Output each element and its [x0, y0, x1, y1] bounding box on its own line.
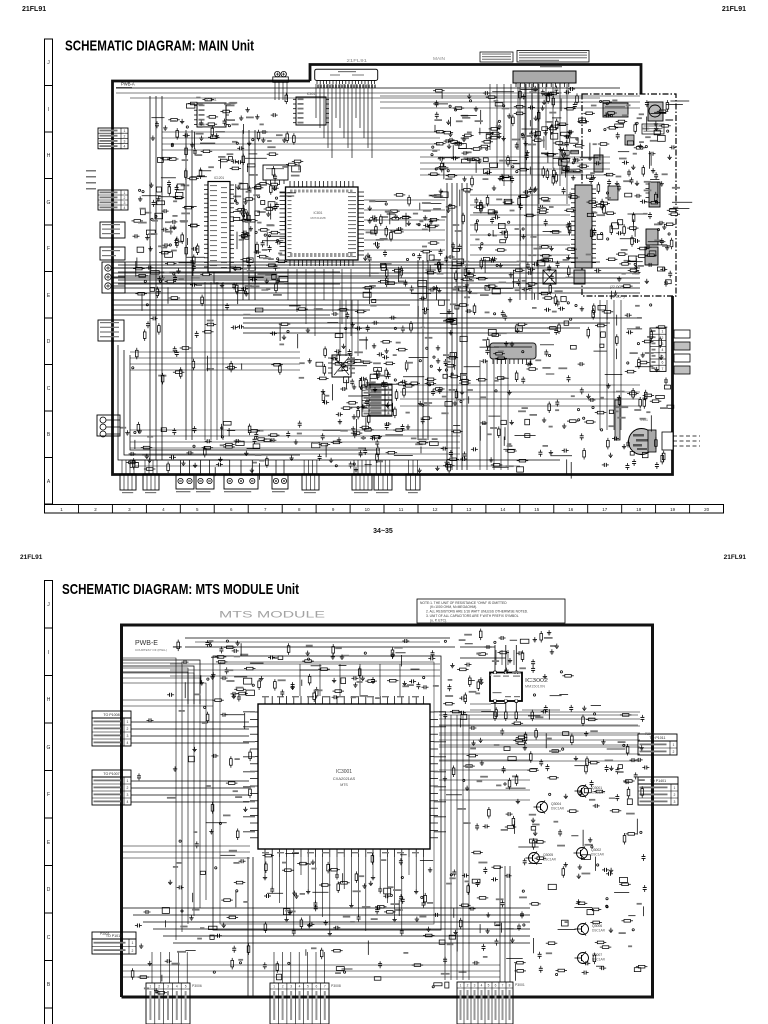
svg-text:D: D [47, 339, 51, 345]
svg-text:P3006: P3006 [192, 984, 202, 988]
svg-text:P3012: P3012 [645, 732, 654, 736]
svg-text:1: 1 [388, 386, 390, 390]
svg-text:3: 3 [290, 985, 292, 989]
svg-text:MAIN: MAIN [433, 56, 445, 61]
svg-text:SCHEMATIC DIAGRAM: MAIN Unit: SCHEMATIC DIAGRAM: MAIN Unit [65, 38, 254, 55]
svg-text:7: 7 [502, 984, 504, 988]
svg-text:P3001: P3001 [515, 983, 525, 987]
svg-text:6: 6 [316, 985, 318, 989]
svg-text:I: I [48, 107, 49, 113]
svg-text:3: 3 [674, 800, 676, 804]
svg-text:16: 16 [568, 507, 574, 512]
svg-text:TO P1011: TO P1011 [649, 736, 665, 740]
svg-text:IC1201: IC1201 [214, 176, 225, 180]
svg-text:3: 3 [167, 985, 169, 989]
svg-text:D: D [47, 887, 51, 893]
svg-text:3. UNIT OF ALL CAPACITORS ARE: 3. UNIT OF ALL CAPACITORS ARE F WITH PRE… [426, 614, 519, 618]
svg-text:MTS MODULE: MTS MODULE [219, 610, 325, 621]
svg-text:4: 4 [481, 984, 483, 988]
svg-text:1: 1 [124, 191, 126, 195]
svg-text:(K=1000 OHM, M=MEGAOHM).: (K=1000 OHM, M=MEGAOHM). [430, 605, 477, 609]
svg-text:1: 1 [662, 330, 664, 334]
svg-text:2: 2 [673, 750, 675, 754]
svg-text:2: 2 [132, 949, 134, 953]
svg-text:6: 6 [662, 361, 664, 365]
svg-text:2: 2 [674, 793, 676, 797]
svg-text:3: 3 [127, 734, 129, 738]
svg-text:1: 1 [132, 941, 134, 945]
svg-text:3: 3 [388, 397, 390, 401]
svg-text:2. ALL RESISTORS ARE 1/16 WATT: 2. ALL RESISTORS ARE 1/16 WATT UNLESS OT… [426, 610, 528, 614]
svg-text:2: 2 [127, 786, 129, 790]
svg-text:6: 6 [495, 984, 497, 988]
svg-text:5: 5 [307, 985, 309, 989]
svg-text:TO P1007: TO P1007 [103, 772, 119, 776]
svg-text:P3008: P3008 [331, 984, 341, 988]
svg-text:NOTE:1. THE UNIT OF RESISTANCE: NOTE:1. THE UNIT OF RESISTANCE “OHM” IS … [420, 601, 507, 605]
svg-text:21FL91: 21FL91 [724, 554, 747, 561]
svg-text:F: F [47, 246, 50, 252]
svg-text:IC3001: IC3001 [336, 769, 352, 775]
svg-text:21FL91: 21FL91 [22, 6, 46, 13]
svg-text:21FL91: 21FL91 [722, 6, 746, 13]
svg-text:G: G [47, 745, 51, 751]
svg-text:(22 OO *): (22 OO *) [610, 295, 625, 299]
svg-text:1: 1 [150, 985, 152, 989]
svg-text:8: 8 [509, 984, 511, 988]
svg-text:4: 4 [127, 741, 129, 745]
svg-text:TO P1401: TO P1401 [650, 779, 666, 783]
svg-text:G: G [47, 200, 51, 206]
svg-text:7: 7 [324, 985, 326, 989]
svg-text:TO P1008: TO P1008 [103, 713, 119, 717]
svg-text:20: 20 [704, 507, 710, 512]
svg-text:DSC1AR: DSC1AR [591, 853, 605, 857]
svg-text:2: 2 [124, 134, 126, 138]
svg-text:CXA2021AS: CXA2021AS [333, 776, 356, 781]
svg-text:21FL91: 21FL91 [20, 554, 43, 561]
svg-text:6: 6 [388, 412, 390, 416]
svg-text:21FL91: 21FL91 [347, 58, 368, 64]
svg-text:C: C [47, 935, 51, 941]
svg-text:Q3006: Q3006 [592, 924, 602, 928]
svg-text:1: 1 [127, 779, 129, 783]
svg-text:I: I [48, 650, 49, 656]
svg-text:H: H [47, 697, 51, 703]
svg-text:4: 4 [124, 145, 126, 149]
svg-text:Q3002: Q3002 [591, 848, 601, 852]
svg-text:3: 3 [124, 140, 126, 144]
svg-text:1: 1 [460, 984, 462, 988]
svg-text:(u, P, ETC).: (u, P, ETC). [430, 618, 447, 622]
svg-text:1: 1 [273, 985, 275, 989]
svg-text:15: 15 [534, 507, 540, 512]
svg-text:2: 2 [158, 985, 160, 989]
svg-text:PWB-E: PWB-E [135, 640, 158, 647]
svg-text:2: 2 [127, 727, 129, 731]
svg-text:SCHEMATIC DIAGRAM: MTS MODULE: SCHEMATIC DIAGRAM: MTS MODULE Unit [62, 581, 299, 598]
svg-text:4: 4 [127, 800, 129, 804]
svg-text:4: 4 [124, 206, 126, 210]
svg-text:3: 3 [127, 793, 129, 797]
svg-text:1: 1 [674, 786, 676, 790]
svg-text:(22 OO *): (22 OO *) [610, 285, 625, 289]
svg-text:M37212M8: M37212M8 [310, 216, 325, 220]
svg-text:DSC1AR: DSC1AR [551, 807, 565, 811]
svg-text:MTS: MTS [340, 783, 348, 787]
svg-text:11: 11 [399, 507, 404, 512]
svg-text:Q3004: Q3004 [551, 802, 561, 806]
svg-text:2: 2 [388, 391, 390, 395]
svg-text:10: 10 [365, 507, 371, 512]
svg-text:Q3005: Q3005 [543, 853, 553, 857]
svg-text:13: 13 [466, 507, 472, 512]
svg-text:3: 3 [474, 984, 476, 988]
svg-text:5: 5 [488, 984, 490, 988]
svg-text:IC601: IC601 [307, 92, 316, 96]
svg-text:4: 4 [176, 985, 178, 989]
svg-text:DSC1AR: DSC1AR [592, 958, 606, 962]
svg-text:1: 1 [124, 129, 126, 133]
svg-text:5: 5 [662, 354, 664, 358]
svg-text:COURTESY OF (PWA-): COURTESY OF (PWA-) [135, 648, 167, 652]
svg-text:2: 2 [467, 984, 469, 988]
svg-text:MM1501XN: MM1501XN [525, 685, 545, 689]
svg-text:H: H [47, 153, 51, 159]
svg-text:5: 5 [185, 985, 187, 989]
svg-text:7: 7 [662, 367, 664, 371]
svg-text:4: 4 [662, 348, 664, 352]
svg-text:Q3001: Q3001 [592, 786, 602, 790]
svg-text:DSC1AR: DSC1AR [592, 929, 606, 933]
svg-text:12: 12 [432, 507, 438, 512]
svg-text:IC801: IC801 [313, 211, 322, 215]
svg-text:2: 2 [124, 196, 126, 200]
svg-text:1: 1 [127, 720, 129, 724]
svg-text:1: 1 [673, 743, 675, 747]
svg-text:PWB-A: PWB-A [121, 82, 135, 87]
svg-text:F: F [47, 792, 50, 798]
svg-text:19: 19 [670, 507, 676, 512]
svg-text:3: 3 [124, 201, 126, 205]
svg-text:2: 2 [282, 985, 284, 989]
svg-text:34~35: 34~35 [373, 528, 393, 535]
svg-text:C: C [47, 386, 51, 392]
svg-text:4: 4 [299, 985, 301, 989]
svg-text:18: 18 [636, 507, 642, 512]
svg-text:P3003: P3003 [100, 932, 109, 936]
svg-text:14: 14 [500, 507, 506, 512]
svg-text:17: 17 [602, 507, 608, 512]
